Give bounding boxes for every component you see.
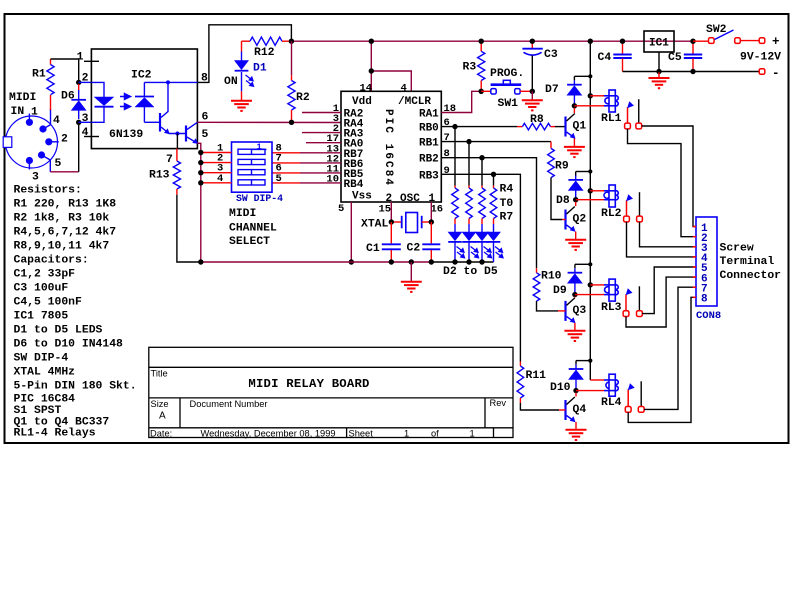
wire RL1 NO contact to CON8 pin1 — [642, 126, 696, 227]
node R12/D1 junction — [289, 39, 294, 44]
svg-text:5-Pin DIN 180 Skt.: 5-Pin DIN 180 Skt. — [14, 380, 137, 392]
svg-text:RB2: RB2 — [419, 154, 439, 166]
wire collector node to RL2 coil bottom — [576, 199, 604, 201]
LED D5 light arrows — [495, 247, 503, 258]
svg-text:RB3: RB3 — [419, 170, 439, 182]
svg-text:4: 4 — [53, 115, 60, 127]
svg-text:RB1: RB1 — [419, 138, 439, 150]
capacitor C3 electrolytic — [522, 41, 557, 91]
node LED D4 on rail — [479, 259, 484, 264]
svg-text:Capacitors:: Capacitors: — [14, 254, 89, 266]
svg-text:RL2: RL2 — [601, 208, 622, 220]
svg-text:R8: R8 — [530, 114, 544, 126]
wire 0V rail — [201, 261, 494, 263]
CON8 pin 5 — [693, 263, 708, 275]
transistor Q1 — [566, 108, 587, 139]
svg-text:OSC: OSC — [400, 193, 420, 205]
IC2 pin 5 wire down to DIP common — [197, 143, 200, 262]
LED D1 — [235, 41, 249, 100]
capacitor C1 — [366, 222, 401, 262]
node C2 on rail — [429, 259, 434, 264]
node Vss rail junction — [349, 259, 354, 264]
svg-text:D8: D8 — [556, 195, 570, 207]
node rail D8 tap — [588, 169, 592, 173]
svg-text:4: 4 — [82, 127, 89, 139]
resistor R11 — [517, 362, 546, 404]
node RB1 branch — [466, 139, 471, 144]
resistor R10 — [533, 268, 561, 301]
node C5 on 0V — [690, 69, 695, 74]
svg-text:SW DIP-4: SW DIP-4 — [14, 352, 69, 364]
wire Q4 emitter to ground — [575, 422, 577, 430]
svg-text:MIDI: MIDI — [229, 208, 256, 220]
wire +9V relay rail — [589, 41, 591, 380]
svg-text:2: 2 — [82, 73, 89, 85]
CON8 pin 1 — [693, 223, 708, 235]
node rail to C5 — [690, 39, 695, 44]
transistor Q3 — [566, 297, 587, 324]
wire DIN pin4 to R1 — [50, 95, 52, 125]
IC2 internal input LED — [91, 82, 113, 122]
resistor R1 — [32, 59, 54, 95]
DIP switch left pin 4 — [203, 173, 232, 185]
wire PIC pin16 to XTAL — [430, 202, 432, 222]
wire RB1 to R9 — [441, 141, 551, 143]
wire RB3 to resistor R7 — [493, 174, 495, 185]
node R3/SW1/RA1 junction — [479, 89, 484, 94]
wire PIC pin15 to XTAL — [390, 202, 392, 222]
svg-text:SELECT: SELECT — [229, 236, 270, 248]
DIP switch left pin 3 — [203, 163, 232, 175]
node LED D3 on rail — [466, 259, 471, 264]
node rail top — [588, 39, 593, 44]
PIC inside labels Vdd /MCLR Vss OSC — [352, 96, 436, 205]
diode D8 flyback — [556, 172, 583, 208]
node rail to C3 — [530, 39, 535, 44]
resistor R5 — [466, 188, 473, 224]
node rail to C4 — [620, 39, 625, 44]
wire RL3 common to CON8 pin6 — [626, 277, 696, 327]
svg-text:RL1-4 Relays: RL1-4 Relays — [14, 428, 96, 440]
svg-text:PROG.: PROG. — [490, 68, 524, 80]
IC2 internal rail to pin 8 — [144, 81, 197, 83]
svg-text:R4: R4 — [500, 184, 514, 196]
IC2 internal light arrows — [120, 94, 131, 110]
node XTAL left — [389, 219, 394, 224]
wire Vdd and /MCLR feed — [371, 41, 411, 91]
wire rail to RL2 coil top — [590, 190, 604, 192]
resistor R3 — [463, 41, 485, 91]
node rail to R3 — [479, 39, 484, 44]
wire R9 to Q2 base — [551, 178, 566, 220]
node rail ground tap — [409, 259, 414, 264]
CON8 pin 7 — [693, 283, 708, 295]
DIP switch left pin 1 — [203, 143, 232, 155]
wire RB0 to resistor R4 — [454, 127, 456, 186]
svg-text:-: - — [772, 67, 780, 81]
transistor Q2 — [566, 202, 587, 232]
wire rail branch to D10 — [576, 360, 590, 362]
node D8 anode / Q2 collector — [573, 197, 578, 202]
svg-text:8: 8 — [701, 294, 708, 306]
svg-text:RB4: RB4 — [344, 179, 364, 191]
wire +5V top rail — [291, 40, 693, 42]
svg-text:R2 1k8, R3 10k: R2 1k8, R3 10k — [14, 212, 110, 224]
svg-text:16: 16 — [431, 204, 444, 216]
CON8 pin 4 — [693, 253, 708, 265]
node R13/DIP common on 0V rail — [198, 259, 203, 264]
node top rail to Vdd — [369, 39, 374, 44]
MIDI IN 5-pin DIN connector J1 — [3, 114, 59, 170]
label + 9V-12V - — [740, 35, 781, 81]
svg-text:R11: R11 — [526, 370, 547, 382]
LED D2 light arrows — [457, 247, 465, 258]
wire junction to IC2 pin3 — [79, 121, 92, 123]
node Vdd //MCLR split — [369, 68, 374, 73]
svg-text:C3: C3 — [544, 49, 558, 61]
ground below SW1 — [522, 91, 543, 110]
node rail D10 tap — [588, 359, 592, 363]
svg-text:D2 to D5: D2 to D5 — [443, 266, 498, 278]
IC2 pin 4 stub — [82, 127, 99, 139]
LED D3 — [462, 224, 476, 262]
svg-text:MIDI: MIDI — [9, 92, 36, 104]
svg-text:7: 7 — [166, 154, 173, 166]
wire collector node to RL4 coil bottom — [576, 390, 604, 392]
ground below Q4 — [566, 430, 587, 440]
CON8 pin 6 — [693, 273, 708, 285]
node D7 anode / Q1 collector — [572, 103, 577, 108]
svg-text:6: 6 — [444, 117, 450, 129]
resistor R8 — [517, 114, 555, 130]
svg-text:Q4: Q4 — [573, 404, 587, 416]
node C1 on rail — [389, 259, 394, 264]
svg-text:R12: R12 — [254, 47, 275, 59]
svg-text:5: 5 — [55, 158, 62, 170]
node rail to relay RL2 coil — [588, 188, 593, 193]
wire RL3 NO contact to CON8 pin5 — [642, 267, 696, 314]
wire RL4 common to CON8 pin8 — [628, 297, 696, 422]
PIC pin 11 RB5 — [272, 163, 364, 181]
wire 0V power rail — [623, 71, 763, 73]
IC2 pin 1 stub — [77, 52, 99, 64]
wire rail branch to D8 — [576, 171, 591, 173]
node DIP pin 2 to common — [198, 160, 203, 165]
LED D4 — [475, 224, 489, 262]
svg-text:Q2: Q2 — [573, 214, 587, 226]
svg-text:IC1 7805: IC1 7805 — [14, 310, 69, 322]
svg-text:Screw: Screw — [720, 243, 754, 255]
relay contact RL2 — [626, 192, 639, 216]
svg-text:1: 1 — [31, 107, 38, 119]
PIC pin 17 RA0 — [306, 133, 363, 151]
svg-text:C2: C2 — [407, 243, 421, 255]
svg-text:5: 5 — [276, 173, 282, 185]
ground on 0V rail — [401, 262, 422, 292]
svg-text:R7: R7 — [500, 212, 514, 224]
node D9 anode / Q3 collector — [572, 292, 577, 297]
node RB3 branch — [491, 172, 496, 177]
wire RB0 to R8 — [441, 126, 517, 128]
node rail to relay RL1 coil — [588, 93, 593, 98]
svg-text:RA1: RA1 — [419, 109, 439, 121]
svg-text:4: 4 — [217, 173, 223, 185]
title block labels — [150, 369, 506, 439]
PIC pin 1 RA2 — [302, 103, 363, 121]
svg-text:D6: D6 — [61, 91, 75, 103]
svg-text:6N139: 6N139 — [109, 129, 143, 141]
svg-text:SW1: SW1 — [498, 98, 519, 110]
wire collector node to RL3 coil bottom — [575, 294, 604, 296]
wire rail to RL4 coil top — [590, 379, 604, 381]
PIC pin 10 RB4 — [272, 173, 364, 191]
labels R4 TO R7 — [500, 184, 514, 224]
svg-text:Resistors:: Resistors: — [14, 184, 82, 196]
op­tocoupler IC2 6N139 box — [91, 49, 197, 149]
parts list text — [14, 184, 137, 439]
svg-text:RL3: RL3 — [601, 302, 622, 314]
svg-text:A: A — [159, 411, 166, 422]
wire rail to RL1 coil top — [590, 95, 604, 97]
DIP switch left pin 2 — [203, 153, 232, 165]
LED D3 light arrows — [471, 247, 479, 258]
node rail D9 tap — [588, 262, 592, 266]
regulator IC1 7805 — [644, 31, 674, 72]
svg-text:Q1: Q1 — [573, 121, 587, 133]
wire R13 to 0V rail — [177, 195, 201, 262]
svg-text:CHANNEL: CHANNEL — [229, 222, 277, 234]
node LED D2 on rail — [452, 259, 457, 264]
svg-text:XTAL: XTAL — [361, 219, 389, 231]
IC2 pin 8 label and wire — [197, 25, 291, 85]
wire IC2 pin7 internal drop — [176, 134, 178, 149]
PIC pin 9 RB3 — [419, 165, 450, 183]
wire PIC Vss pin5 to 0V rail — [350, 202, 352, 262]
relay coil RL4 — [601, 374, 622, 409]
svg-text:9V-12V: 9V-12V — [740, 52, 781, 64]
wire RA1 to R3/SW1 — [441, 91, 481, 112]
resistor R6 — [479, 188, 486, 224]
IC2 internal transistor T2 — [169, 122, 198, 144]
node junction D6 anode / IC2 pin3 — [76, 120, 81, 125]
D1 light arrows — [246, 75, 254, 86]
wire junction to IC2 pin2 — [79, 81, 92, 83]
svg-text:R1 220, R13 1K8: R1 220, R13 1K8 — [14, 198, 117, 210]
LED D5 — [487, 224, 501, 262]
node junction D6 cathode / IC2 pin2 — [76, 80, 81, 85]
IC2 internal photodiode — [135, 82, 154, 122]
wire RB2 to R10 — [441, 158, 536, 269]
connector CON8 box — [696, 217, 717, 306]
node DIP pin 1 to common — [198, 150, 203, 155]
wire R11 to Q4 base — [520, 403, 565, 410]
wire Q1 emitter to ground — [573, 139, 575, 147]
wire RB1 to resistor R5 — [468, 142, 470, 186]
svg-text:T0: T0 — [500, 198, 514, 210]
svg-text:PIC 16C84: PIC 16C84 — [382, 109, 394, 185]
node IC1 ground pin on 0V — [656, 69, 661, 74]
diode D6 — [61, 84, 86, 119]
wire Q2 emitter to ground — [575, 232, 577, 240]
resistor R13 — [149, 149, 181, 195]
diode D9 flyback — [553, 264, 582, 297]
node DIP pin 3 to common — [198, 170, 203, 175]
PIC pin 2 RA3 — [302, 123, 364, 141]
svg-text:R1: R1 — [32, 69, 46, 81]
capacitor C4 — [598, 41, 632, 71]
ground below Q2 — [565, 240, 586, 250]
svg-text:/MCLR: /MCLR — [398, 96, 431, 108]
svg-text:1: 1 — [77, 52, 84, 64]
svg-text:IN: IN — [11, 106, 25, 118]
PIC pin 8 RB2 — [419, 148, 450, 166]
crystal XTAL — [361, 213, 431, 233]
wire RL2 common to CON8 pin4 — [627, 222, 697, 257]
ground below Q1 — [564, 147, 585, 157]
IC2 internal transistor T1 — [144, 80, 170, 134]
svg-text:RL1: RL1 — [601, 113, 622, 125]
ground below IC1 — [649, 72, 670, 89]
diode D7 flyback — [545, 76, 582, 106]
capacitor C2 — [407, 222, 441, 262]
svg-text:R4,5,6,7,12 4k7: R4,5,6,7,12 4k7 — [14, 226, 117, 238]
svg-text:Vss: Vss — [352, 191, 372, 203]
switch SW DIP-4 box — [232, 142, 273, 192]
node D10 anode / Q4 collector — [573, 388, 578, 393]
relay coil RL3 — [601, 279, 622, 314]
node RB2 branch — [479, 155, 484, 160]
PIC pin 18 RA1 — [419, 103, 456, 121]
node RB0 branch — [452, 124, 457, 129]
wire DIN pin5 to D6 anode net — [50, 122, 78, 172]
relay coil RL1 — [601, 90, 622, 125]
svg-text:Rev: Rev — [490, 398, 507, 408]
PIC pin 3 RA4 — [333, 113, 364, 131]
svg-text:IC1: IC1 — [649, 38, 669, 50]
resistor R9 — [548, 142, 569, 178]
terminal minus — [759, 69, 765, 75]
wire rail branch to D7 — [574, 75, 590, 77]
LED D4 light arrows — [484, 247, 492, 258]
svg-text:R3: R3 — [463, 62, 477, 74]
ground below Q3 — [564, 331, 585, 341]
svg-text:CON8: CON8 — [696, 310, 721, 322]
wire collector node to RL1 coil bottom — [574, 105, 604, 107]
svg-text:D1 to D5 LEDS: D1 to D5 LEDS — [14, 324, 103, 336]
wire RL2 NO contact to CON8 pin3 — [640, 222, 697, 247]
svg-text:2: 2 — [61, 134, 68, 146]
node rail to relay RL3 coil — [588, 282, 593, 287]
resistor R12 — [242, 37, 292, 59]
wire R10 to Q3 base — [537, 301, 566, 311]
wire R1 top to IC2 pin2 net — [51, 59, 79, 82]
relay contact RL3 — [626, 286, 640, 311]
relay contact RL4 — [628, 381, 641, 406]
wire RB3 to R11 — [441, 174, 520, 361]
svg-text:RB0: RB0 — [419, 123, 439, 135]
label MIDI CHANNEL SELECT — [229, 208, 277, 248]
CON8 pin 8 — [693, 294, 708, 306]
svg-text:Connector: Connector — [720, 270, 782, 282]
svg-text:R9: R9 — [555, 161, 569, 173]
svg-text:15: 15 — [379, 204, 392, 216]
wire R8 to Q1 base — [555, 126, 565, 128]
relay coil RL2 — [601, 185, 622, 220]
svg-text:Q1 to Q4 BC337: Q1 to Q4 BC337 — [14, 416, 110, 428]
node rail D7 tap — [588, 74, 592, 78]
svg-text:R2: R2 — [296, 92, 310, 104]
svg-text:D6 to D10 IN4148: D6 to D10 IN4148 — [14, 338, 124, 350]
svg-text:Title: Title — [151, 369, 168, 379]
wire rail branch to D9 — [575, 263, 590, 265]
wire RB2 to resistor R6 — [481, 158, 483, 186]
svg-text:IC2: IC2 — [131, 70, 152, 82]
title block — [149, 347, 513, 437]
svg-text:D7: D7 — [545, 84, 559, 96]
svg-text:SW2: SW2 — [706, 24, 727, 36]
wire RL4 NO contact to CON8 pin7 — [644, 287, 696, 409]
svg-text:1: 1 — [470, 429, 475, 439]
svg-text:Wednesday, December 08, 1999: Wednesday, December 08, 1999 — [201, 429, 336, 439]
svg-text:ON: ON — [224, 76, 238, 88]
svg-text:R8,9,10,11 4k7: R8,9,10,11 4k7 — [14, 240, 110, 252]
microcontroller U1 PIC 16C84 box — [341, 91, 441, 202]
wire rail to RL3 coil top — [590, 284, 604, 286]
svg-text:C3 100uF: C3 100uF — [14, 282, 69, 294]
node SW1/C3 junction — [530, 89, 535, 94]
svg-text:Document Number: Document Number — [190, 399, 268, 409]
svg-text:SW DIP-4: SW DIP-4 — [236, 193, 283, 204]
svg-text:PIC 16C84: PIC 16C84 — [14, 394, 76, 406]
svg-text:Terminal: Terminal — [720, 256, 775, 268]
svg-text:R13: R13 — [149, 170, 170, 182]
svg-text:Sheet: Sheet — [349, 429, 374, 439]
svg-text:5: 5 — [202, 129, 209, 141]
svg-text:5: 5 — [338, 203, 344, 215]
svg-text:C4: C4 — [598, 52, 612, 64]
svg-text:+: + — [772, 35, 780, 49]
svg-text:MIDI RELAY BOARD: MIDI RELAY BOARD — [248, 377, 369, 391]
resistor R2 — [288, 41, 310, 122]
svg-text:D1: D1 — [253, 63, 267, 75]
transistor Q4 — [566, 393, 587, 423]
svg-text:RL4: RL4 — [601, 397, 622, 409]
svg-text:C1: C1 — [366, 243, 380, 255]
relay contact RL1 — [627, 99, 639, 123]
svg-text:C5: C5 — [668, 52, 682, 64]
CON8 pin 2 — [693, 233, 708, 245]
svg-text:of: of — [431, 429, 439, 439]
PIC pin 13 RB7 — [272, 143, 363, 161]
PIC pin 6 RB0 — [419, 117, 450, 135]
node R2 / RA4 junction — [289, 120, 294, 125]
svg-text:Vdd: Vdd — [352, 96, 372, 108]
label Screw Terminal Connector — [720, 243, 782, 282]
PIC pin 12 RB6 — [272, 153, 363, 171]
diode D10 flyback — [550, 361, 583, 394]
svg-text:1: 1 — [257, 142, 262, 152]
svg-text:Date:: Date: — [150, 429, 172, 439]
ground below D1 — [231, 101, 252, 111]
CON8 pin 3 — [693, 243, 708, 255]
switch SW2 — [693, 24, 765, 43]
node DIP pin 4 to common — [198, 180, 203, 185]
wire Q3 emitter to ground — [574, 323, 576, 331]
pushbutton SW1 — [481, 80, 532, 94]
node XTAL right — [429, 219, 434, 224]
svg-text:XTAL 4MHz: XTAL 4MHz — [14, 366, 76, 378]
LED D2 — [448, 224, 462, 262]
